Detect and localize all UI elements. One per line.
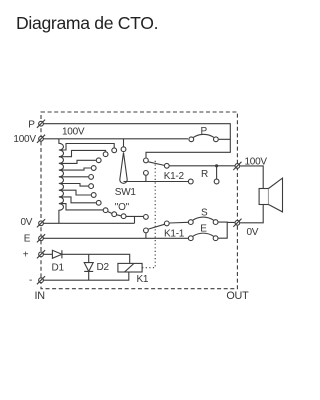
wire P line <box>41 124 230 139</box>
wire K1-1 blade output to S left contact <box>170 221 188 224</box>
wire off-position chain c9-c10-c11 to K1-1 upper contact <box>108 212 143 217</box>
rotary switch SW1 contact c10 <box>112 212 117 217</box>
svg-text:100V: 100V <box>62 127 85 138</box>
terminal 0V OUT <box>233 219 241 227</box>
wire tap t8 <box>59 197 96 203</box>
relay contact K1-1 <box>144 215 170 239</box>
wire P contact feed from 100V line <box>41 138 188 140</box>
terminal 0V IN <box>37 219 45 227</box>
pushbutton S <box>188 217 218 224</box>
wire 0V rail <box>41 222 135 224</box>
svg-text:IN: IN <box>35 290 45 302</box>
wire tap t6 <box>59 184 88 187</box>
pushbutton P <box>189 134 218 141</box>
pushbutton E <box>188 233 218 240</box>
node junction to R <box>215 164 218 167</box>
rotary switch SW1 contact c0 (100V position) <box>121 139 126 152</box>
transformer winding T1 <box>59 139 64 224</box>
terminal E <box>37 234 45 242</box>
rotary switch SW1 contact c4 <box>91 166 96 171</box>
wire + rail to relay <box>41 254 130 263</box>
relay contact K1-2 <box>144 158 170 182</box>
rotary switch SW1 contact c8 <box>96 200 101 205</box>
wire relay return to - rail <box>41 272 129 280</box>
svg-text:0V: 0V <box>21 217 33 228</box>
wire tap t2 <box>59 150 106 156</box>
wire node between P right contact and K1-2 common <box>146 139 230 157</box>
svg-text:OUT: OUT <box>226 290 249 302</box>
svg-text:D2: D2 <box>97 262 110 273</box>
svg-text:SW1: SW1 <box>115 187 137 198</box>
svg-text:E: E <box>200 223 207 234</box>
rotary switch SW1 contact c11 <box>121 214 126 219</box>
terminal 100V OUT <box>233 162 241 170</box>
svg-text:P: P <box>201 126 208 137</box>
dashed enclosure border <box>41 112 237 289</box>
svg-text:-: - <box>29 275 32 286</box>
rotary switch SW1 contact c2 <box>103 152 108 157</box>
wire S and E outputs join to 0V OUT terminal <box>218 222 234 238</box>
wire chain drop to 0V rail <box>134 216 136 223</box>
wire K1-2 output to 100V OUT terminal <box>170 165 235 167</box>
rotary switch SW1 contact c9 <box>103 208 108 213</box>
wire 0V OUT to speaker <box>240 205 263 223</box>
svg-text:P: P <box>28 119 35 130</box>
wire tap t1 <box>59 144 114 151</box>
rotary switch SW1 contact c3 <box>96 158 101 163</box>
diode D1 <box>52 250 62 258</box>
svg-text:+: + <box>23 250 29 261</box>
svg-text:R: R <box>201 169 208 180</box>
svg-text:K1: K1 <box>137 274 149 285</box>
svg-text:100V: 100V <box>13 134 36 145</box>
wire tap t4 <box>59 168 91 170</box>
relay coil K1 <box>118 263 142 272</box>
wire tap t3 <box>59 160 96 163</box>
wire E rail <box>41 237 188 239</box>
svg-text:K1-2: K1-2 <box>164 171 185 182</box>
wire 100V OUT to speaker <box>240 166 263 189</box>
svg-text:0V: 0V <box>247 227 259 238</box>
wire tap t9 <box>59 204 103 210</box>
rotary switch SW1 contact c5 <box>89 175 94 180</box>
rotary switch SW1 contact c6 <box>89 184 94 189</box>
terminal - <box>37 276 45 284</box>
terminal 100V IN <box>37 135 45 143</box>
wire tap t7 <box>59 190 91 195</box>
svg-text:"O": "O" <box>115 202 130 213</box>
rotary switch SW1 contact c7 <box>91 193 96 198</box>
speaker LS1 <box>259 178 282 212</box>
wire SW1 wiper output to R left contact <box>124 181 189 183</box>
svg-text:S: S <box>201 208 208 219</box>
wire tap t5 <box>59 176 88 178</box>
mechanical linkage K1 (dotted) <box>142 160 155 268</box>
pushbutton R <box>188 179 219 184</box>
svg-text:E: E <box>24 233 31 244</box>
svg-text:D1: D1 <box>52 263 65 274</box>
terminal P <box>37 120 45 128</box>
rotary switch SW1 wiper <box>120 152 127 183</box>
rotary switch SW1 contact c1 <box>112 148 117 153</box>
terminal + <box>37 250 45 258</box>
diode D2 <box>84 254 93 280</box>
wire junction down to R right contact <box>216 166 218 179</box>
